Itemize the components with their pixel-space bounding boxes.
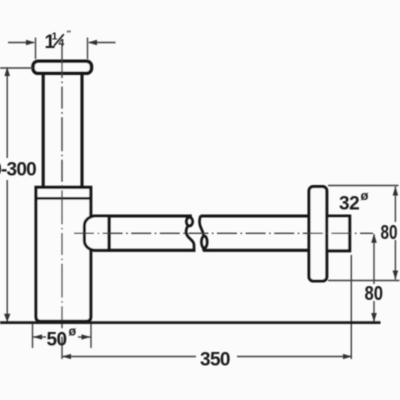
arrow left height bottom [4,314,10,322]
350 dim right shaft [237,356,352,358]
arrow axis 80 bottom [371,313,377,322]
svg-text:80: 80 [381,222,398,244]
dim 1 1/4 right extension line [87,38,89,60]
svg-text:50-300: 50-300 [0,159,36,180]
outlet nut rounded end [84,216,109,250]
flange 80 top extension line [328,185,399,187]
arrow 50 dia left [33,334,42,339]
350 dim left shaft [62,356,196,358]
50 dia left extension line [32,324,34,348]
dim 1 1/4 right shaft [89,42,116,44]
vertical centerline [61,44,63,359]
dim 1 1/4 left shaft [8,42,34,44]
50 dia right extension line [90,324,92,348]
350 dim right extension line from wall stub [350,255,352,359]
arrow axis 80 top [371,234,377,243]
axis height 80 dim line upper segment [373,234,375,284]
flange 80 dim line upper segment [394,187,396,223]
axis height 80 dim line lower segment [373,301,375,322]
break symbol left squiggle [186,215,194,249]
nut separator line [107,216,110,250]
svg-text:1: 1 [52,31,58,43]
outlet tube right segment top [201,214,331,217]
left height dim line lower segment [6,180,8,322]
svg-text:350: 350 [200,350,230,371]
svg-text:50: 50 [47,330,67,351]
left height dim extension to cap [0,67,33,69]
arrow 50 dia right [82,334,91,339]
left height dim line upper segment [6,68,8,159]
arrow 350 left [62,354,71,359]
body collar line [35,197,92,200]
trap body (bottle) [36,187,91,321]
arrow 350 right [343,354,352,359]
wall pipe stub [328,216,350,251]
dim 1 1/4 left extension line [35,38,37,60]
svg-text:4: 4 [58,37,64,49]
svg-text:80: 80 [365,283,384,305]
arrowheads [4,40,398,359]
flange 80 dim line lower segment [394,240,396,280]
outlet tube left segment top [109,214,192,217]
break symbol right squiggle [200,216,208,251]
inlet vertical pipe left wall [42,74,45,186]
50 dia left shaft [33,336,46,338]
label 1 1/4 inch: fraction slash [54,34,64,46]
floor reference line [0,321,381,324]
wall flange (rosette) [309,187,327,281]
svg-text:32: 32 [339,194,359,215]
outlet tube left segment bottom [109,249,196,252]
flange 80 bottom extension line [328,280,400,282]
svg-text:″: ″ [67,29,71,39]
inlet vertical pipe right wall [80,74,83,186]
svg-text:ø: ø [361,188,369,203]
inlet cap (flange nut) [33,61,92,73]
horizontal centerline [74,232,373,234]
arrow left height top [4,67,10,76]
svg-text:ø: ø [69,325,77,339]
arrow flange 80 bottom [393,271,399,280]
50 dia right shaft [78,336,91,338]
arrow flange 80 top [393,187,399,196]
arrow dim 1 1/4 right [88,40,97,46]
outlet tube right segment bottom [203,249,330,252]
arrow dim 1 1/4 left [26,40,35,46]
